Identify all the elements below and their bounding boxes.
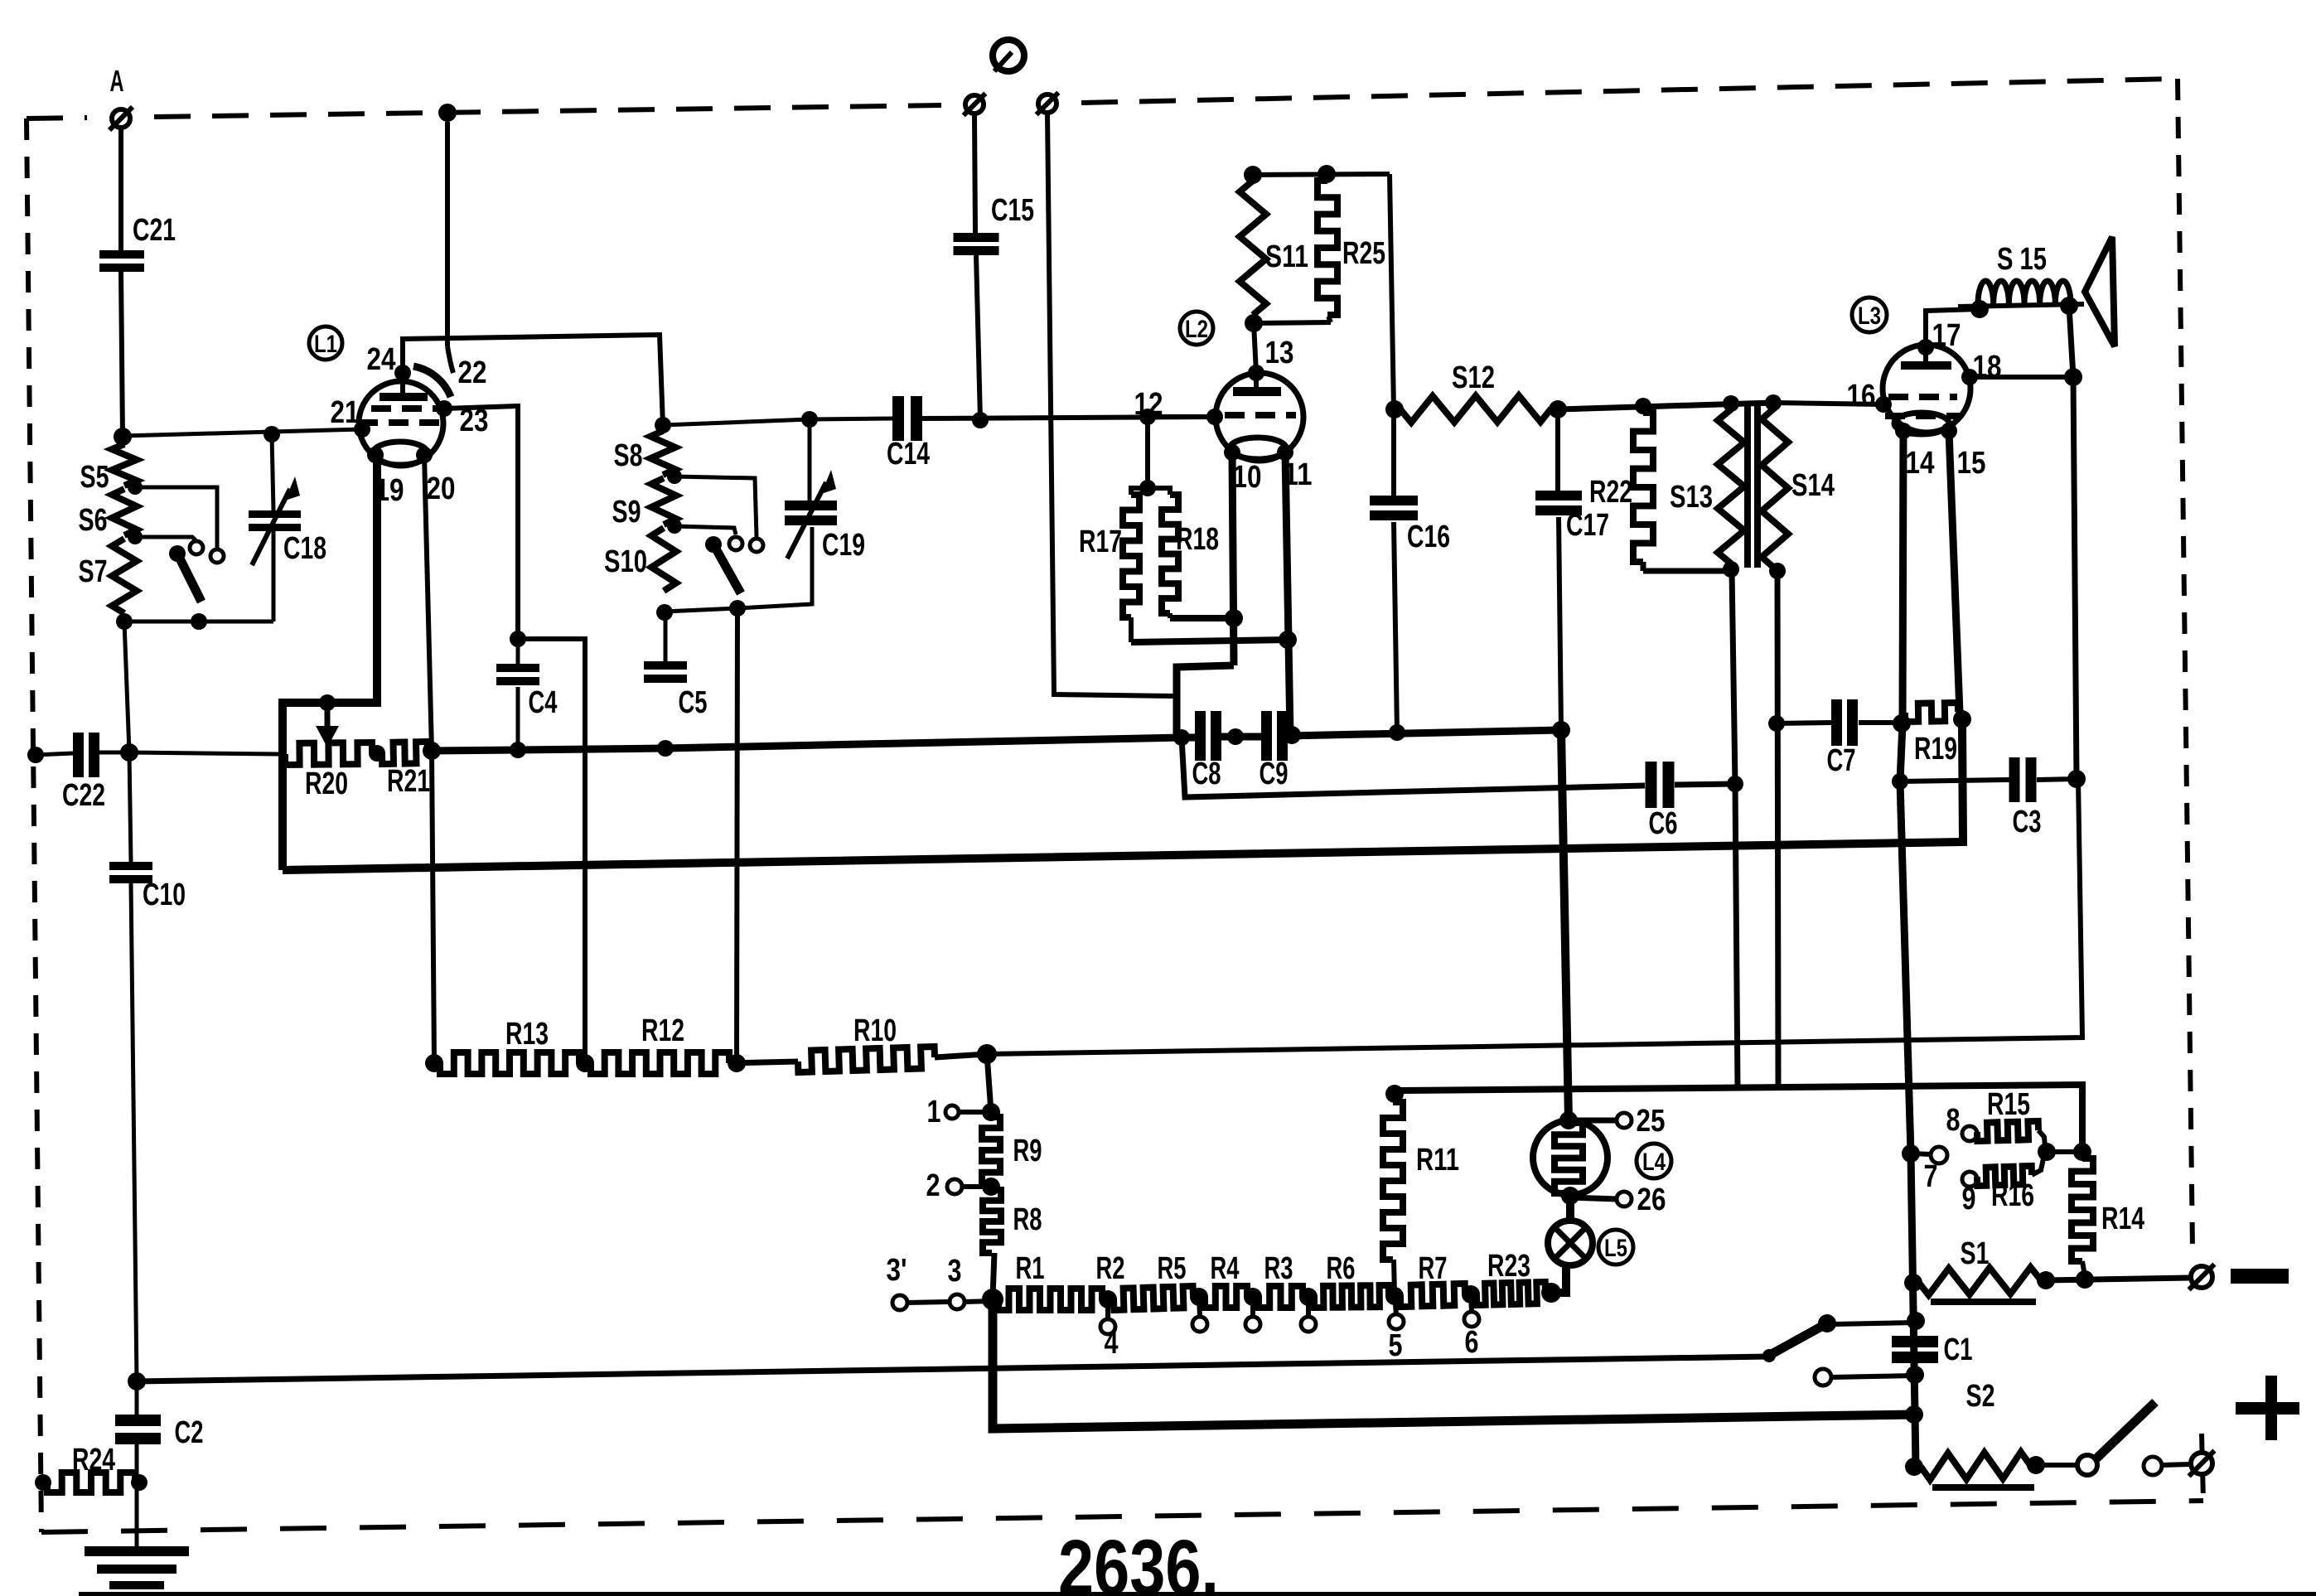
svg-text:L2: L2 [1185, 316, 1208, 343]
capacitor C7 [1777, 699, 1902, 778]
resistor S2 [1921, 1379, 2030, 1480]
tube L3 label [1852, 297, 1887, 332]
lamp L5 label [1598, 1230, 1633, 1265]
node junction C3 line on pin14 [1892, 773, 1908, 790]
node tap 4 [1099, 1290, 1119, 1361]
wire HT bus into C8 [1182, 734, 1197, 742]
wire S7 bottom to C18 bottom [124, 530, 273, 621]
svg-text:C18: C18 [283, 531, 326, 566]
svg-text:R12: R12 [641, 1013, 684, 1048]
svg-text:S13: S13 [1670, 480, 1713, 515]
wire contact to terminal [2162, 1464, 2190, 1465]
capacitor C21 [99, 213, 176, 272]
resistor R1 [998, 1251, 1102, 1310]
node junction pin22 on top border [438, 104, 457, 122]
node pin 10 label [1233, 460, 1262, 495]
node terminal 25 [1569, 1104, 1666, 1139]
svg-text:S10: S10 [604, 544, 647, 579]
wire output return line [1395, 1085, 2082, 1152]
tube L2 label [1180, 312, 1213, 345]
resistor R9 [982, 1117, 1042, 1183]
node junction C2 top [128, 1372, 146, 1390]
node terminal 3 [948, 1254, 965, 1309]
wire R18 bottom to pin 10 line [1170, 615, 1234, 621]
node pin 21 label [331, 395, 360, 430]
svg-text:C1: C1 [1944, 1332, 1973, 1367]
node junction top of S8 [655, 417, 671, 433]
wire dashed enclosure top border [27, 79, 2178, 118]
svg-text:14: 14 [1906, 446, 1935, 481]
node terminal 9 [1962, 1172, 1978, 1216]
node terminal 7 [1911, 1147, 1947, 1194]
node contact circle upper [210, 549, 224, 563]
node junction battery line [1905, 1405, 1923, 1424]
svg-text:21: 21 [331, 395, 360, 430]
wire pin 22 electrode [413, 122, 487, 397]
node pin 15 label [1957, 446, 1986, 481]
resistor R19 [1905, 703, 1958, 767]
node junction C22-C10 [120, 743, 138, 762]
svg-text:R21: R21 [387, 764, 430, 799]
resistor R24 [35, 1443, 147, 1492]
node junction S2 right [2027, 1456, 2045, 1474]
svg-text:17: 17 [1932, 318, 1961, 353]
wire junction to C14 [810, 418, 892, 419]
scan edge bottom [79, 1592, 2316, 1596]
wire C4-junction right and down to R12-R13 node [518, 639, 585, 1063]
svg-text:C14: C14 [887, 437, 930, 472]
inductor S14 [1762, 408, 1835, 568]
svg-text:R17: R17 [1079, 525, 1122, 559]
node junction R13 left [425, 1054, 443, 1072]
wire junction to R14 top [2047, 1149, 2082, 1154]
tube L1 label [309, 326, 342, 360]
svg-text:20: 20 [427, 472, 456, 506]
svg-text:L3: L3 [1858, 302, 1881, 330]
svg-text:L1: L1 [314, 331, 337, 358]
node junction C19 top [801, 411, 818, 428]
resistor S12 [1400, 360, 1551, 423]
svg-text:R18: R18 [1176, 522, 1219, 557]
node junction C4 bottom [510, 742, 526, 758]
sign minus [2231, 1269, 2289, 1284]
svg-text:8: 8 [1946, 1103, 1961, 1138]
svg-text:R3: R3 [1264, 1251, 1293, 1286]
svg-text:R11: R11 [1416, 1143, 1459, 1178]
wire LT bus from R8 node [993, 1299, 1914, 1429]
node junction C4 top [510, 631, 526, 647]
node open terminal [1815, 1369, 1831, 1386]
wire S2 underline [1932, 1484, 2034, 1491]
svg-text:S7: S7 [79, 554, 108, 589]
node junction R8-R1 terminal 3 [982, 1289, 1003, 1310]
node phone tip terminal [964, 94, 986, 116]
resistor R2 [1096, 1251, 1194, 1310]
wire R10 node down [987, 1054, 991, 1112]
wire C2 to R24 node [135, 1444, 139, 1482]
wire pin 24 lead [367, 342, 404, 394]
resistor S11 [1240, 181, 1308, 315]
wire R24 node to ground [135, 1482, 139, 1548]
wire C4 to bus [516, 687, 520, 750]
wire S13 line down to output line [1735, 784, 1738, 1090]
node junction bus1-pin10 branch [1173, 729, 1190, 746]
wire pin 19 thick bracket to R20 [283, 455, 377, 870]
svg-text:2: 2 [926, 1168, 940, 1203]
wire S15 down to pin 18 node [2069, 306, 2073, 377]
wire HT bus left segment [432, 738, 1182, 751]
node junction L4 top [1559, 1111, 1578, 1129]
resistor R22 [1589, 413, 1653, 571]
svg-text:R7: R7 [1419, 1251, 1448, 1286]
node pin 19 label [375, 473, 404, 508]
wire C19 top to junction [808, 419, 812, 501]
speaker horn [2085, 237, 2115, 346]
node phone sleeve terminal [1037, 93, 1059, 115]
svg-text:C22: C22 [62, 778, 105, 813]
resistor R14 [2072, 1158, 2144, 1276]
node tap a [1190, 1288, 1208, 1332]
svg-text:R8: R8 [1013, 1202, 1042, 1237]
node junction L4 bottom [1561, 1187, 1579, 1205]
svg-text:C10: C10 [143, 878, 186, 912]
wire pin 13 to S11 [1254, 323, 1256, 373]
wire bus battery-minus line [137, 1357, 1769, 1381]
node terminal 3prime [887, 1253, 908, 1310]
wire pin 10 down [1232, 452, 1234, 665]
node C22 left terminal dot [27, 747, 44, 763]
wire grid return bus [283, 725, 1963, 870]
wire S2 to pivot [2036, 1463, 2077, 1468]
ground [85, 1546, 189, 1596]
inductor L4 label [1637, 1144, 1671, 1178]
tube L1 [354, 365, 452, 466]
node tap 5 [1385, 1287, 1404, 1363]
svg-text:R22: R22 [1589, 475, 1632, 510]
wire C6 to S13 line [1675, 784, 1735, 785]
node junction R21 right on HT bus [423, 742, 441, 760]
svg-text:S5: S5 [80, 460, 109, 495]
wire pin 15 down to R19 [1949, 431, 1960, 713]
switch band blade [705, 536, 746, 617]
svg-text:R24: R24 [72, 1443, 115, 1478]
node terminal plus [2189, 1451, 2215, 1477]
wire S6 tap to contact [135, 537, 196, 540]
resistor R13 [440, 1017, 579, 1074]
wire dashed enclosure bottom border [41, 1501, 2203, 1532]
node phone terminal ring [993, 40, 1024, 71]
svg-text:15: 15 [1957, 446, 1986, 481]
wire S13 bottom down to detector line [1732, 571, 1735, 784]
svg-text:R5: R5 [1158, 1251, 1187, 1286]
node junction S14 top [1765, 394, 1782, 411]
node junction S15 left [1970, 300, 1989, 318]
svg-text:R14: R14 [2101, 1202, 2144, 1236]
wire top link down to S12 [1390, 174, 1394, 409]
node junction terminal 7 [1902, 1144, 1920, 1163]
wire speaker line down to C3 [2073, 377, 2077, 779]
node junction R23 right [1541, 1283, 1561, 1303]
wire C18 top to junction [272, 434, 273, 510]
wire C17 to bus corner [1559, 517, 1561, 730]
capacitor C3 [1900, 757, 2077, 839]
text drawing number [1058, 1524, 1219, 1596]
transformer core [1748, 406, 1758, 568]
wire junction down to R17-R18 [1145, 417, 1150, 488]
wire C10 to C2 junction [131, 883, 137, 1381]
svg-text:C8: C8 [1192, 757, 1221, 791]
svg-text:C9: C9 [1260, 757, 1289, 791]
wire C14 to L2 pin 12 [921, 417, 1215, 418]
svg-text:6: 6 [1465, 1325, 1479, 1360]
svg-text:24: 24 [367, 342, 396, 377]
node junction R22 top [1635, 398, 1651, 414]
capacitor C2 [115, 1381, 204, 1450]
svg-text:3: 3 [948, 1254, 962, 1289]
svg-text:7: 7 [1924, 1159, 1938, 1194]
wire pin 18 to junction [1970, 350, 2073, 384]
switch battery blade [2077, 1402, 2155, 1475]
svg-text:22: 22 [458, 355, 487, 390]
node junction switch top [1907, 1312, 1925, 1330]
resistor R17 [1079, 488, 1148, 642]
wire pin 23 to C4 [444, 404, 518, 638]
node S7 bottom junction [116, 613, 133, 630]
switch wave-range blade [169, 545, 207, 630]
inductor L4 field coil [1533, 1120, 1608, 1195]
node pin 12 label [1134, 387, 1163, 422]
node junction S15 right [2060, 297, 2078, 315]
node S8-S9 tap [667, 469, 682, 484]
capacitor C22 [62, 733, 105, 813]
node corner bus1 to L4 feed [1552, 721, 1570, 739]
wire S1 to terminal [2046, 1278, 2190, 1280]
node tap c [1299, 1288, 1318, 1332]
tube L2 [1206, 365, 1303, 461]
svg-text:4: 4 [1105, 1326, 1119, 1361]
wire pin 16 to S14 top [1773, 403, 1883, 404]
svg-text:18: 18 [1973, 350, 2002, 384]
node junction R9-R8 terminal 2 [982, 1178, 1000, 1196]
wire S8 junction to C19 junction [663, 419, 810, 425]
wire switch common down to R12 [737, 608, 737, 1063]
resistor R6 [1327, 1251, 1466, 1307]
resistor S8 [614, 431, 676, 475]
resistor S6 [79, 489, 138, 538]
node junction terminal 1 [982, 1103, 1000, 1121]
svg-text:C16: C16 [1407, 520, 1450, 554]
wire S10 bottom to C19 lead [665, 527, 812, 612]
potentiometer R20 [285, 742, 372, 801]
svg-text:R16: R16 [1991, 1178, 2034, 1213]
resistor S7 [79, 539, 138, 613]
svg-text:S6: S6 [79, 503, 108, 538]
capacitor C19 variable [785, 470, 865, 563]
svg-text:R19: R19 [1914, 732, 1957, 767]
wire S5 tap to contact [135, 487, 217, 549]
wire terminal to C15 [974, 114, 975, 233]
svg-text:S1: S1 [1961, 1236, 1990, 1271]
node junction R17-R18 top [1139, 480, 1156, 496]
svg-text:C7: C7 [1827, 743, 1856, 778]
resistor R7 [1419, 1251, 1546, 1305]
sign plus [2236, 1376, 2299, 1440]
wire R8 to chain [993, 1253, 994, 1298]
svg-text:R1: R1 [1016, 1251, 1045, 1286]
capacitor C4 [496, 639, 558, 720]
wire pin 12 to R17-R18 junction [1148, 414, 1215, 419]
node pin 20 label [427, 472, 456, 506]
node junction pin 18 line [2064, 368, 2082, 386]
resistor R4 [1211, 1251, 1303, 1308]
wire L5 to R23 node [1551, 1265, 1566, 1293]
wire R10 node to C3 [987, 779, 2082, 1054]
wire R17 bottom to pin 11 line [1131, 640, 1288, 642]
svg-text:S14: S14 [1791, 468, 1835, 503]
node junction R13-R12 [576, 1054, 594, 1072]
lamp L5 [1548, 1221, 1593, 1265]
wire terminal 2 link [962, 1184, 991, 1189]
wire pin 24 up and right to S8 [403, 335, 663, 425]
node junction C3 right [2067, 770, 2086, 788]
resistor S10 [604, 528, 676, 591]
capacitor C9 [1260, 711, 1289, 791]
svg-text:S9: S9 [612, 495, 641, 530]
svg-text:R9: R9 [1013, 1134, 1042, 1168]
node junction R19 right [1953, 710, 1971, 728]
tube L3 [1875, 339, 1978, 439]
node junction R18 on pin10 line [1225, 609, 1243, 627]
node junction S12 left [1385, 400, 1404, 418]
capacitor C10 [109, 862, 186, 912]
svg-text:S8: S8 [614, 438, 643, 473]
node junction S13 bottom [1723, 561, 1739, 578]
node R20 wiper junction [319, 694, 336, 711]
svg-text:C15: C15 [991, 193, 1034, 228]
node junction R14 bottom [2076, 1270, 2094, 1289]
wire R20 wiper arrow [316, 703, 339, 747]
svg-text:R23: R23 [1487, 1249, 1530, 1284]
inductor S13 [1670, 409, 1744, 563]
wire L4 to L5 [1566, 1196, 1574, 1221]
svg-text:23: 23 [460, 404, 489, 438]
node terminal 2 [926, 1168, 963, 1203]
switch on-off blade [1762, 1314, 1836, 1362]
resistor R18 [1148, 488, 1219, 618]
resistor R3 [1264, 1251, 1390, 1308]
wire pin 17 lead [1926, 318, 1961, 362]
wire S11-R25 top link [1253, 174, 1390, 175]
node contact circle [2144, 1457, 2162, 1475]
node junction C1 bottom [1906, 1366, 1924, 1384]
wire S14 bottom down to output line [1777, 571, 1778, 1088]
node terminal 8 [1946, 1103, 1978, 1141]
node junction antenna-S5 [114, 428, 132, 446]
wire terminal 3 links [907, 1301, 993, 1303]
node terminal 26 [1570, 1182, 1666, 1217]
node junction pin11 on bus [1283, 726, 1301, 744]
svg-text:C21: C21 [133, 213, 176, 248]
resistor R25 [1318, 181, 1385, 322]
node contact circle left [729, 537, 742, 550]
svg-text:R13: R13 [505, 1017, 549, 1052]
node junction R10 right [977, 1044, 997, 1064]
svg-text:S 15: S 15 [1997, 242, 2047, 277]
svg-text:C6: C6 [1649, 806, 1678, 841]
node pin 16 label [1847, 379, 1876, 414]
node S9-S10 tap [667, 519, 682, 534]
capacitor C5 [644, 613, 708, 720]
svg-text:C19: C19 [822, 528, 865, 563]
wire S12 right to S14 top [1558, 403, 1773, 409]
svg-text:26: 26 [1637, 1182, 1666, 1217]
node junction detector line end [1727, 776, 1743, 792]
wire C15 to L2 grid line [976, 255, 980, 419]
wire S11-R25 bottom link [1254, 322, 1331, 323]
node pin 14 label [1906, 446, 1935, 481]
svg-text:L5: L5 [1604, 1235, 1627, 1262]
wire pin 17 up to S15 [1926, 309, 1980, 347]
svg-text:R4: R4 [1211, 1251, 1240, 1286]
node junction S2 left [1905, 1458, 1923, 1476]
wire A to C21 [118, 128, 123, 250]
resistor R5 [1158, 1251, 1248, 1308]
wire pin 20 down to R13 [424, 455, 434, 1063]
svg-text:16: 16 [1847, 379, 1876, 414]
svg-text:C2: C2 [175, 1415, 204, 1450]
node junction R11 top [1385, 1085, 1404, 1103]
node junction C5 bottom [657, 740, 674, 757]
svg-text:2636.: 2636. [1058, 1524, 1219, 1596]
wire R22 bottom to S13 bottom [1643, 568, 1731, 574]
node junction S11 top [1244, 166, 1262, 184]
wire junction to L1 grid pin 21 [123, 426, 362, 443]
wire border to C22 [36, 753, 73, 755]
wire R12 to R10 [729, 1062, 798, 1063]
svg-text:1: 1 [927, 1095, 941, 1129]
svg-text:R6: R6 [1327, 1251, 1356, 1286]
node junction R17 on pin11 line [1279, 631, 1297, 649]
svg-text:S12: S12 [1452, 360, 1495, 395]
wire pin 13 lead [1256, 336, 1294, 388]
svg-text:R2: R2 [1096, 1251, 1125, 1286]
node junction S12 right [1549, 400, 1567, 418]
capacitor C17 [1535, 409, 1609, 543]
node junction R25 top [1318, 165, 1336, 183]
svg-text:R25: R25 [1342, 236, 1385, 271]
node junction R12 right [728, 1054, 746, 1072]
svg-text:L4: L4 [1642, 1149, 1666, 1176]
svg-text:5: 5 [1389, 1328, 1403, 1363]
svg-text:R20: R20 [305, 767, 348, 801]
svg-text:R15: R15 [1987, 1087, 2030, 1122]
inductor S15 speaker coil [1958, 242, 2084, 307]
wire S1 underline [1931, 1299, 2036, 1305]
wire pin 14 down [1900, 431, 1916, 1467]
wire S8 tap to contact [674, 476, 757, 537]
wire C21 to junction [121, 272, 123, 437]
svg-text:9: 9 [1962, 1182, 1976, 1216]
resistor R15 [1977, 1087, 2045, 1147]
svg-text:A: A [110, 64, 124, 98]
svg-text:3': 3' [887, 1253, 907, 1288]
node junction R14 top [2073, 1143, 2091, 1161]
capacitor C15 [954, 193, 1035, 255]
node junction S11 bottom [1245, 314, 1263, 332]
wire S7 down to C22 node [124, 621, 129, 752]
resistor R11 [1383, 1102, 1459, 1294]
node pin 11 label [1284, 457, 1313, 492]
